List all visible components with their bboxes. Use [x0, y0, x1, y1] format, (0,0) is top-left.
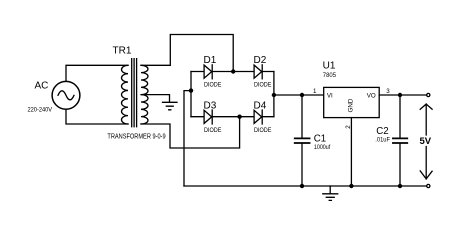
svg-text:AC: AC — [35, 81, 49, 92]
AC source V1 — [52, 81, 80, 109]
node bridge AC bottom junction — [237, 115, 241, 119]
svg-text:D2: D2 — [254, 55, 267, 66]
node bridge positive junction — [272, 93, 276, 97]
svg-text:3: 3 — [386, 88, 390, 95]
output terminal (0V) — [427, 184, 430, 187]
transformer TR1 primary winding — [121, 65, 128, 124]
node C1 top junction — [300, 93, 304, 97]
capacitor C2 — [393, 95, 407, 186]
diode D3 — [204, 110, 212, 124]
svg-text:C2: C2 — [376, 126, 388, 137]
transformer TR1 core — [132, 59, 137, 127]
svg-text:GND: GND — [347, 98, 354, 112]
ground (center tap) — [163, 102, 178, 110]
wire bridge left side — [190, 72, 192, 117]
transformer TR1 secondary winding — [141, 65, 148, 124]
svg-text:1: 1 — [313, 88, 317, 95]
svg-text:220-240V: 220-240V — [28, 106, 53, 113]
svg-text:C1: C1 — [314, 133, 326, 144]
wire bridge top row — [191, 71, 274, 73]
wire AC top to primary — [66, 65, 128, 81]
ground (output rail) — [323, 186, 338, 200]
svg-text:D4: D4 — [254, 100, 267, 111]
wire bridge positive to U1 VI — [274, 94, 324, 96]
svg-text:D3: D3 — [204, 100, 217, 111]
svg-text:DIODE: DIODE — [254, 127, 272, 134]
wire U1 VO to output terminal — [379, 94, 426, 96]
svg-text:.01uF: .01uF — [375, 136, 390, 143]
svg-text:5V: 5V — [420, 136, 432, 147]
wire secondary bottom to bridge AC node — [141, 117, 240, 148]
wire secondary top to bridge AC node — [141, 35, 233, 72]
wire ground rail — [184, 185, 427, 187]
wire bridge negative to ground rail — [184, 91, 191, 186]
wire bridge bottom row — [191, 116, 274, 118]
voltage regulator U1 (7805) body — [324, 87, 380, 117]
node bridge AC top junction — [231, 69, 235, 73]
svg-text:DIODE: DIODE — [204, 127, 222, 134]
svg-text:TR1: TR1 — [113, 46, 132, 57]
diode D4 — [254, 110, 262, 124]
svg-text:D1: D1 — [204, 55, 217, 66]
5V measurement arrow — [420, 104, 432, 179]
node bridge negative junction — [189, 88, 193, 92]
svg-text:TRANSFORMER 9-0-9: TRANSFORMER 9-0-9 — [107, 134, 165, 141]
svg-text:VO: VO — [367, 92, 376, 99]
wire U1 GND pin to rail — [350, 118, 352, 186]
wire bridge right side — [273, 72, 275, 117]
svg-text:U1: U1 — [323, 61, 336, 72]
wire secondary center tap — [141, 95, 170, 102]
svg-text:7805: 7805 — [323, 72, 336, 79]
node C2 top junction — [398, 93, 402, 97]
svg-text:1000uf: 1000uf — [314, 144, 330, 151]
svg-text:DIODE: DIODE — [204, 82, 222, 89]
diode D2 — [254, 65, 262, 79]
wire AC bottom to primary — [66, 109, 128, 124]
capacitor C1 — [295, 95, 310, 186]
node C2 bottom junction — [398, 184, 402, 188]
output terminal (+5V) — [427, 93, 430, 96]
svg-text:DIODE: DIODE — [254, 82, 272, 89]
diode D1 — [204, 65, 212, 79]
node C1 bottom junction — [300, 184, 304, 188]
node U1 GND rail junction — [349, 184, 353, 188]
svg-text:VI: VI — [327, 92, 333, 99]
